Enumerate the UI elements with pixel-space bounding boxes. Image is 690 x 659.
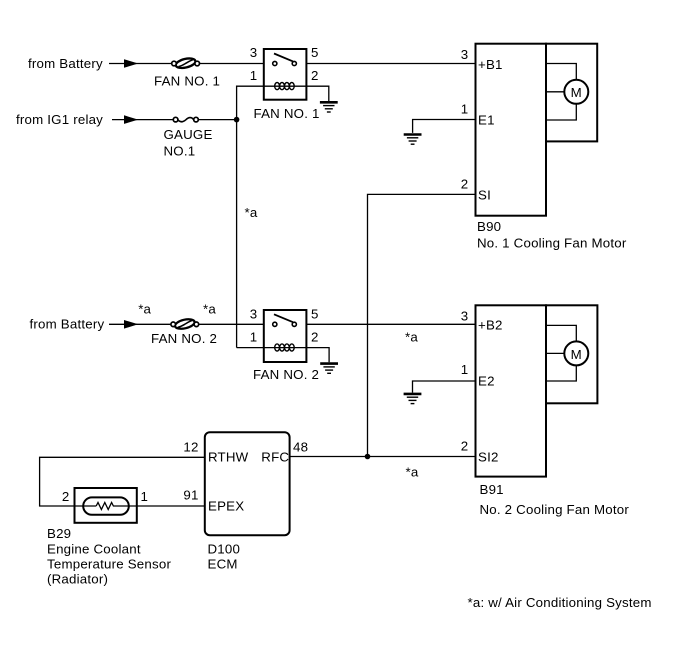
svg-text:No. 1 Cooling Fan Motor: No. 1 Cooling Fan Motor [477, 236, 627, 251]
svg-text:SI: SI [478, 187, 491, 202]
svg-text:NO.1: NO.1 [164, 143, 196, 158]
svg-text:RFC: RFC [261, 450, 289, 465]
svg-text:Engine Coolant: Engine Coolant [47, 541, 141, 556]
svg-text:from Battery: from Battery [28, 56, 103, 71]
svg-text:from Battery: from Battery [30, 317, 105, 332]
svg-text:*a: *a [245, 205, 258, 220]
svg-text:E1: E1 [478, 113, 495, 128]
svg-text:B29: B29 [47, 526, 71, 541]
svg-text:5: 5 [311, 45, 319, 60]
svg-text:5: 5 [311, 306, 319, 321]
svg-text:E2: E2 [478, 374, 495, 389]
svg-text:SI2: SI2 [478, 449, 499, 464]
svg-text:3: 3 [250, 306, 258, 321]
svg-text:M: M [571, 85, 582, 100]
svg-text:1: 1 [250, 330, 258, 345]
svg-text:1: 1 [141, 489, 149, 504]
svg-text:D100: D100 [208, 541, 241, 556]
svg-text:2: 2 [461, 439, 469, 454]
svg-text:3: 3 [461, 47, 469, 62]
svg-text:*a: w/ Air Conditioning System: *a: w/ Air Conditioning System [468, 595, 652, 610]
svg-text:1: 1 [461, 101, 469, 116]
svg-text:3: 3 [461, 309, 469, 324]
svg-text:RTHW: RTHW [208, 450, 249, 465]
svg-text:1: 1 [250, 68, 258, 83]
svg-text:No. 2 Cooling Fan Motor: No. 2 Cooling Fan Motor [480, 502, 630, 517]
svg-text:3: 3 [250, 45, 258, 60]
svg-text:12: 12 [183, 440, 198, 455]
svg-text:48: 48 [293, 440, 308, 455]
svg-text:B91: B91 [480, 482, 504, 497]
svg-text:FAN NO. 1: FAN NO. 1 [154, 73, 220, 88]
svg-text:FAN NO. 1: FAN NO. 1 [254, 106, 320, 121]
svg-text:2: 2 [461, 176, 469, 191]
svg-text:+B1: +B1 [478, 57, 503, 72]
svg-text:*a: *a [203, 302, 216, 317]
svg-text:B90: B90 [477, 219, 501, 234]
svg-text:FAN NO. 2: FAN NO. 2 [253, 367, 319, 382]
svg-text:91: 91 [183, 487, 198, 502]
svg-text:GAUGE: GAUGE [164, 127, 213, 142]
svg-text:FAN NO. 2: FAN NO. 2 [151, 331, 217, 346]
svg-text:2: 2 [311, 68, 319, 83]
svg-text:*a: *a [405, 330, 418, 345]
svg-text:Temperature Sensor: Temperature Sensor [47, 557, 171, 572]
svg-text:M: M [571, 347, 582, 362]
svg-text:(Radiator): (Radiator) [47, 572, 108, 587]
svg-text:1: 1 [461, 362, 469, 377]
svg-text:*a: *a [406, 465, 419, 480]
svg-text:2: 2 [62, 489, 70, 504]
svg-text:+B2: +B2 [478, 317, 503, 332]
svg-text:*a: *a [138, 302, 151, 317]
svg-text:from IG1 relay: from IG1 relay [16, 112, 103, 127]
svg-text:2: 2 [311, 330, 319, 345]
svg-text:EPEX: EPEX [208, 499, 244, 514]
svg-text:ECM: ECM [208, 557, 238, 572]
